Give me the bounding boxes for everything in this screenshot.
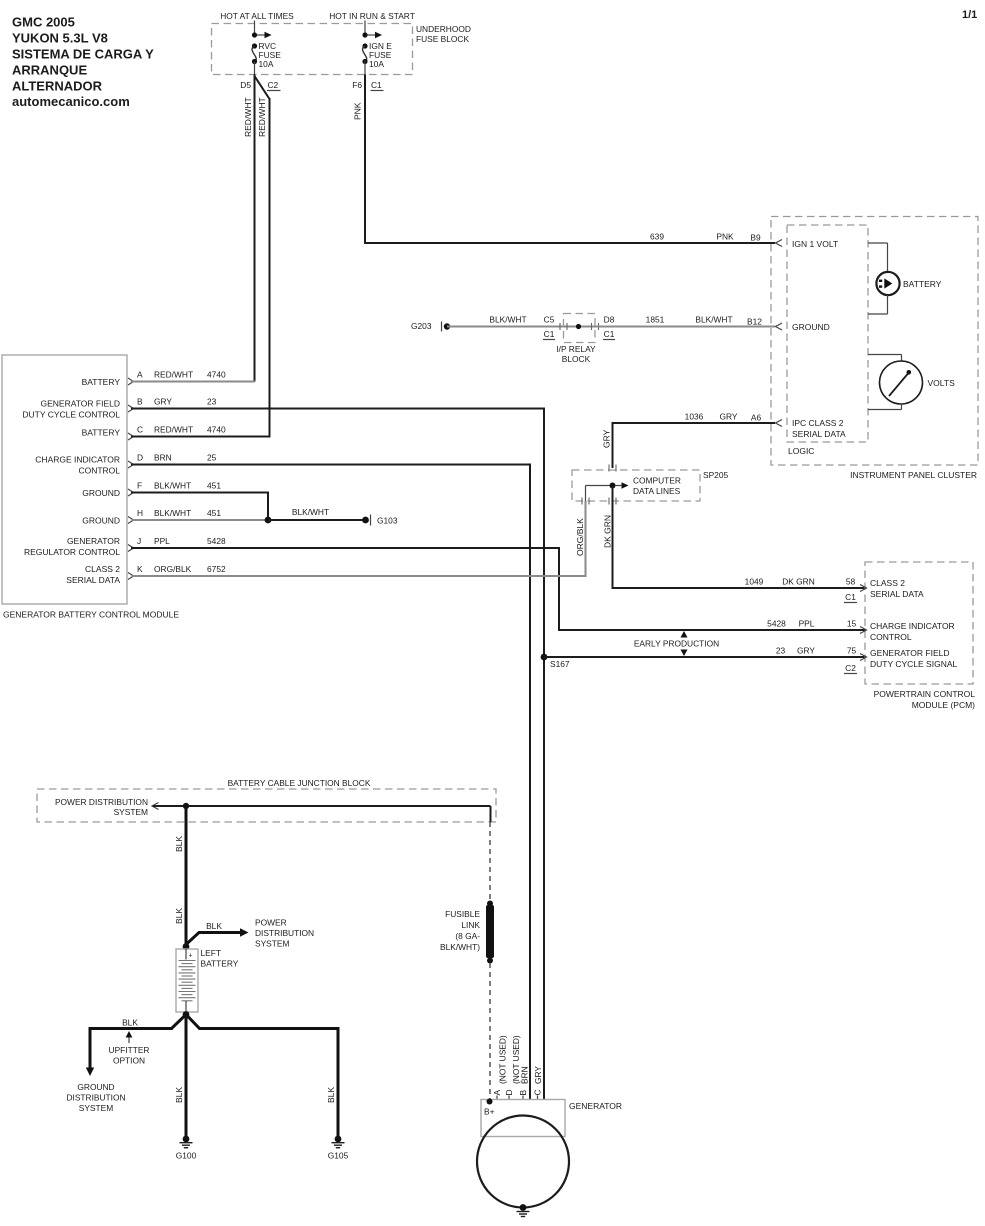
svg-text:ARRANQUE: ARRANQUE bbox=[12, 63, 87, 78]
svg-text:DATA LINES: DATA LINES bbox=[633, 486, 681, 496]
svg-text:CLASS 2: CLASS 2 bbox=[85, 564, 120, 574]
svg-text:15: 15 bbox=[847, 619, 857, 629]
svg-text:451: 451 bbox=[207, 508, 221, 518]
wire DK GRN 1049 SP205 to PCM pin 58 bbox=[603, 486, 866, 603]
svg-text:OPTION: OPTION bbox=[113, 1056, 145, 1066]
svg-text:automecanico.com: automecanico.com bbox=[12, 94, 130, 109]
underhood fuse block box bbox=[212, 11, 471, 75]
module pin A wire RED/WHT 4740 bbox=[128, 370, 255, 386]
IPC pin A6 arrow bbox=[776, 420, 783, 427]
svg-text:F6: F6 bbox=[352, 80, 362, 90]
svg-text:451: 451 bbox=[207, 481, 221, 491]
svg-text:10A: 10A bbox=[369, 59, 384, 69]
svg-text:BATTERY: BATTERY bbox=[82, 377, 121, 387]
svg-text:B12: B12 bbox=[747, 317, 762, 327]
svg-text:CONTROL: CONTROL bbox=[78, 466, 120, 476]
svg-text:YUKON 5.3L V8: YUKON 5.3L V8 bbox=[12, 31, 108, 46]
svg-text:CHARGE INDICATOR: CHARGE INDICATOR bbox=[870, 621, 955, 631]
IPC logic box bbox=[787, 225, 868, 456]
svg-text:RED/WHT: RED/WHT bbox=[154, 370, 193, 380]
svg-text:REGULATOR CONTROL: REGULATOR CONTROL bbox=[24, 547, 120, 557]
fuse RVC 10A bbox=[252, 21, 281, 75]
svg-text:D: D bbox=[504, 1089, 514, 1095]
svg-text:CONTROL: CONTROL bbox=[870, 632, 912, 642]
svg-text:BATTERY: BATTERY bbox=[201, 959, 239, 969]
svg-text:(8 GA-: (8 GA- bbox=[455, 931, 480, 941]
generator pin labels bbox=[492, 1035, 543, 1100]
svg-text:GENERATOR BATTERY CONTROL MODU: GENERATOR BATTERY CONTROL MODULE bbox=[3, 610, 179, 620]
svg-text:MODULE (PCM): MODULE (PCM) bbox=[912, 700, 975, 710]
instrument panel cluster box bbox=[771, 217, 978, 481]
svg-text:1049: 1049 bbox=[745, 577, 764, 587]
svg-text:6752: 6752 bbox=[207, 564, 226, 574]
svg-text:GENERATOR FIELD: GENERATOR FIELD bbox=[870, 648, 950, 658]
svg-text:LINK: LINK bbox=[461, 920, 480, 930]
svg-text:C1: C1 bbox=[604, 329, 615, 339]
svg-text:SERIAL DATA: SERIAL DATA bbox=[66, 575, 120, 585]
svg-text:GRY: GRY bbox=[797, 646, 815, 656]
svg-text:BLK/WHT: BLK/WHT bbox=[154, 508, 191, 518]
svg-text:G100: G100 bbox=[176, 1151, 197, 1161]
generator circle bbox=[477, 1116, 569, 1208]
svg-text:10A: 10A bbox=[259, 59, 274, 69]
svg-text:C5: C5 bbox=[544, 315, 555, 325]
svg-text:BLK: BLK bbox=[122, 1018, 138, 1028]
svg-text:C1: C1 bbox=[845, 592, 856, 602]
svg-text:POWER DISTRIBUTION: POWER DISTRIBUTION bbox=[55, 797, 148, 807]
svg-text:COMPUTER: COMPUTER bbox=[633, 476, 681, 486]
svg-text:BLK: BLK bbox=[174, 1087, 184, 1103]
PCM pin 75 arrow bbox=[860, 654, 867, 661]
svg-text:SP205: SP205 bbox=[703, 470, 728, 480]
svg-text:INSTRUMENT PANEL CLUSTER: INSTRUMENT PANEL CLUSTER bbox=[850, 470, 977, 480]
wire BLK/WHT to ground G103 bbox=[268, 507, 366, 520]
svg-text:HOT AT ALL TIMES: HOT AT ALL TIMES bbox=[220, 11, 294, 21]
svg-text:ORG/BLK: ORG/BLK bbox=[575, 518, 585, 556]
svg-text:SYSTEM: SYSTEM bbox=[114, 807, 148, 817]
svg-text:UPFITTER: UPFITTER bbox=[109, 1045, 150, 1055]
svg-text:RED/WHT: RED/WHT bbox=[257, 97, 267, 137]
svg-text:4740: 4740 bbox=[207, 370, 226, 380]
connector label D5 C2 bbox=[240, 80, 280, 91]
cable BLK battery negative branches bbox=[172, 1015, 200, 1029]
svg-text:25: 25 bbox=[207, 453, 217, 463]
module pin C wire RED/WHT 4740 bbox=[128, 425, 271, 441]
left battery symbol bbox=[176, 948, 239, 1012]
svg-text:GROUND: GROUND bbox=[82, 516, 120, 526]
svg-text:58: 58 bbox=[846, 577, 856, 587]
generator case ground bbox=[517, 1204, 530, 1216]
svg-text:C1: C1 bbox=[371, 80, 382, 90]
svg-text:A: A bbox=[137, 370, 143, 380]
svg-text:POWERTRAIN CONTROL: POWERTRAIN CONTROL bbox=[874, 689, 976, 699]
dashed cable fusible link to generator B+ bbox=[489, 963, 491, 1100]
module pin B wire GRY 23 to S167 bbox=[128, 397, 544, 658]
PCM pin 58 arrow bbox=[860, 585, 867, 592]
svg-text:BRN: BRN bbox=[154, 453, 172, 463]
svg-text:DISTRIBUTION: DISTRIBUTION bbox=[255, 928, 314, 938]
svg-text:C2: C2 bbox=[845, 663, 856, 673]
svg-text:C2: C2 bbox=[268, 80, 279, 90]
svg-text:GROUND: GROUND bbox=[77, 1082, 114, 1092]
svg-text:G203: G203 bbox=[411, 321, 432, 331]
svg-text:BLK/WHT: BLK/WHT bbox=[292, 507, 329, 517]
early production note bbox=[634, 631, 719, 656]
svg-text:GRY: GRY bbox=[720, 412, 738, 422]
svg-text:DK GRN: DK GRN bbox=[782, 577, 815, 587]
svg-text:5428: 5428 bbox=[207, 536, 226, 546]
svg-text:B: B bbox=[137, 397, 143, 407]
generator box bbox=[481, 1099, 622, 1137]
cable BLK to ground distribution system bbox=[66, 1018, 172, 1114]
svg-text:A6: A6 bbox=[751, 413, 762, 423]
svg-text:LOGIC: LOGIC bbox=[788, 446, 814, 456]
svg-text:LEFT: LEFT bbox=[201, 948, 221, 958]
svg-text:J: J bbox=[137, 536, 141, 546]
svg-text:+: + bbox=[189, 953, 193, 960]
svg-text:75: 75 bbox=[847, 646, 857, 656]
svg-text:BLK: BLK bbox=[326, 1087, 336, 1103]
upfitter option note bbox=[109, 1031, 150, 1066]
module pin K wire ORG/BLK 6752 to SP205 bbox=[128, 501, 586, 580]
svg-text:1/1: 1/1 bbox=[962, 9, 977, 21]
module pin D wire BRN 25 to generator pin B bbox=[128, 453, 530, 1100]
svg-text:5428: 5428 bbox=[767, 619, 786, 629]
powertrain control module box bbox=[865, 562, 975, 710]
svg-text:SISTEMA DE CARGA Y: SISTEMA DE CARGA Y bbox=[12, 47, 154, 62]
wire BLK/WHT 1851 relay block to IPC B12 bbox=[595, 315, 775, 340]
svg-text:FUSIBLE: FUSIBLE bbox=[445, 909, 480, 919]
svg-text:BATTERY CABLE JUNCTION BLOCK: BATTERY CABLE JUNCTION BLOCK bbox=[228, 778, 371, 788]
svg-text:BRN: BRN bbox=[520, 1066, 530, 1084]
svg-text:BLK/WHT: BLK/WHT bbox=[154, 481, 191, 491]
cable BLK to ground G105 bbox=[199, 1029, 339, 1138]
svg-text:BLK/WHT: BLK/WHT bbox=[695, 315, 732, 325]
battery cable junction block bbox=[37, 778, 496, 822]
fusible link 8GA BLK/WHT bbox=[440, 901, 494, 964]
svg-text:EARLY PRODUCTION: EARLY PRODUCTION bbox=[634, 639, 719, 649]
svg-text:CLASS 2: CLASS 2 bbox=[870, 578, 905, 588]
dashed cable junction block to fusible link bbox=[489, 822, 491, 901]
svg-text:BLK: BLK bbox=[174, 908, 184, 924]
svg-text:23: 23 bbox=[207, 397, 217, 407]
wire RED/WHT branch down to module pin C bbox=[255, 76, 270, 437]
svg-text:GENERATOR: GENERATOR bbox=[67, 536, 120, 546]
svg-text:1851: 1851 bbox=[646, 315, 665, 325]
junction dot battery negative bbox=[183, 1011, 190, 1018]
ground G103 bbox=[362, 515, 398, 526]
svg-text:FUSE BLOCK: FUSE BLOCK bbox=[416, 34, 469, 44]
generator battery control module box bbox=[2, 355, 179, 620]
svg-text:BLK/WHT: BLK/WHT bbox=[489, 315, 526, 325]
svg-text:H: H bbox=[137, 508, 143, 518]
splice pack SP205 computer data lines bbox=[572, 465, 728, 505]
svg-text:F: F bbox=[137, 481, 142, 491]
ground G100 bbox=[176, 1136, 197, 1161]
svg-text:GENERATOR FIELD: GENERATOR FIELD bbox=[40, 399, 120, 409]
svg-text:SERIAL DATA: SERIAL DATA bbox=[870, 589, 924, 599]
svg-text:RED/WHT: RED/WHT bbox=[243, 97, 253, 137]
svg-text:C: C bbox=[533, 1089, 543, 1095]
wire GRY 1036 SP205 to IPC A6 bbox=[602, 412, 776, 469]
svg-text:4740: 4740 bbox=[207, 425, 226, 435]
wire RED/WHT from fuse RVC down to module pin A bbox=[243, 75, 255, 382]
fuse IGN E 10A bbox=[362, 21, 392, 75]
svg-text:DUTY CYCLE SIGNAL: DUTY CYCLE SIGNAL bbox=[870, 659, 958, 669]
svg-text:GRY: GRY bbox=[602, 429, 612, 448]
svg-text:SYSTEM: SYSTEM bbox=[79, 1103, 113, 1113]
junction dot to battery bbox=[183, 803, 189, 809]
volts gauge bbox=[868, 355, 955, 410]
svg-text:B+: B+ bbox=[484, 1107, 495, 1117]
svg-text:PNK: PNK bbox=[353, 102, 363, 120]
IPC pin B12 arrow bbox=[776, 323, 783, 330]
svg-text:(NOT USED): (NOT USED) bbox=[498, 1035, 508, 1084]
wire GRY 23 S167 to PCM pin 75 bbox=[544, 646, 865, 674]
svg-text:B9: B9 bbox=[750, 233, 761, 243]
svg-text:A: A bbox=[492, 1090, 502, 1096]
svg-text:SERIAL DATA: SERIAL DATA bbox=[792, 429, 846, 439]
wire GRY S167 down to generator pin C bbox=[543, 657, 545, 1099]
svg-text:23: 23 bbox=[776, 646, 786, 656]
svg-text:SYSTEM: SYSTEM bbox=[255, 939, 289, 949]
ground G203 and wire BLK/WHT to IPC B12 bbox=[411, 315, 564, 340]
module pin H wire BLK/WHT 451 to G103 bbox=[128, 508, 268, 524]
module pin J wire PPL 5428 to PCM pin 15 bbox=[128, 536, 865, 630]
svg-text:GENERATOR: GENERATOR bbox=[569, 1101, 622, 1111]
svg-text:ORG/BLK: ORG/BLK bbox=[154, 564, 192, 574]
svg-text:PPL: PPL bbox=[154, 536, 170, 546]
cable BLK junction block to battery bbox=[174, 806, 186, 947]
svg-text:C: C bbox=[137, 425, 143, 435]
svg-text:I/P RELAY: I/P RELAY bbox=[556, 344, 596, 354]
wire PNK from fuse IGN E to IPC pin B9 bbox=[353, 75, 776, 244]
svg-text:CHARGE INDICATOR: CHARGE INDICATOR bbox=[35, 455, 120, 465]
svg-text:RED/WHT: RED/WHT bbox=[154, 425, 193, 435]
splice S167 bbox=[541, 654, 570, 669]
svg-text:DUTY CYCLE CONTROL: DUTY CYCLE CONTROL bbox=[22, 410, 120, 420]
PCM pin 15 arrow bbox=[860, 627, 867, 634]
svg-text:DISTRIBUTION: DISTRIBUTION bbox=[66, 1093, 125, 1103]
cable BLK to ground G100 bbox=[174, 1015, 186, 1138]
svg-text:639: 639 bbox=[650, 232, 664, 242]
svg-text:G105: G105 bbox=[328, 1151, 349, 1161]
branch BLK to power distribution system bbox=[186, 918, 314, 949]
module pin F wire BLK/WHT 451 bbox=[128, 481, 268, 521]
svg-text:K: K bbox=[137, 564, 143, 574]
svg-text:PNK: PNK bbox=[716, 232, 734, 242]
svg-text:BATTERY: BATTERY bbox=[903, 279, 942, 289]
svg-text:BATTERY: BATTERY bbox=[82, 428, 121, 438]
svg-text:BLK/WHT): BLK/WHT) bbox=[440, 942, 480, 952]
svg-text:ALTERNADOR: ALTERNADOR bbox=[12, 79, 103, 94]
connector label F6 C1 bbox=[352, 80, 383, 91]
svg-text:VOLTS: VOLTS bbox=[928, 378, 956, 388]
svg-text:HOT IN RUN & START: HOT IN RUN & START bbox=[329, 11, 415, 21]
svg-text:POWER: POWER bbox=[255, 918, 287, 928]
svg-text:BLK: BLK bbox=[206, 921, 222, 931]
svg-text:1036: 1036 bbox=[685, 412, 704, 422]
battery indicator lamp bbox=[868, 243, 942, 314]
svg-text:B: B bbox=[518, 1090, 528, 1096]
svg-text:GROUND: GROUND bbox=[82, 488, 120, 498]
svg-text:BLOCK: BLOCK bbox=[562, 354, 591, 364]
svg-text:GROUND: GROUND bbox=[792, 322, 830, 332]
svg-text:GMC 2005: GMC 2005 bbox=[12, 15, 75, 30]
svg-text:D: D bbox=[137, 453, 143, 463]
ground G105 bbox=[328, 1136, 349, 1161]
svg-text:G103: G103 bbox=[377, 516, 398, 526]
svg-text:IPC CLASS 2: IPC CLASS 2 bbox=[792, 418, 844, 428]
svg-text:UNDERHOOD: UNDERHOOD bbox=[416, 24, 471, 34]
I/P relay block bbox=[556, 314, 598, 365]
svg-text:PPL: PPL bbox=[799, 619, 815, 629]
svg-text:C1: C1 bbox=[544, 329, 555, 339]
svg-text:DK GRN: DK GRN bbox=[603, 515, 613, 548]
svg-text:IGN 1 VOLT: IGN 1 VOLT bbox=[792, 239, 838, 249]
IPC pin B9 arrow bbox=[776, 240, 783, 247]
svg-text:S167: S167 bbox=[550, 659, 570, 669]
labels PPL row bbox=[767, 619, 856, 629]
junction dot pins F/H bbox=[265, 517, 272, 524]
svg-text:BLK: BLK bbox=[174, 836, 184, 852]
svg-text:D8: D8 bbox=[604, 315, 615, 325]
svg-text:GRY: GRY bbox=[533, 1066, 543, 1084]
junction dot battery positive bbox=[183, 943, 190, 950]
svg-text:GRY: GRY bbox=[154, 397, 172, 407]
title block bbox=[12, 15, 154, 110]
svg-text:D5: D5 bbox=[240, 80, 251, 90]
